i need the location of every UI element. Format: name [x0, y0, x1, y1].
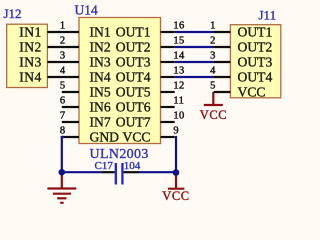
svg-text:15: 15: [173, 36, 184, 47]
svg-text:IN3: IN3: [90, 54, 111, 69]
svg-text:2: 2: [60, 36, 66, 47]
U14 pin 9 stub: [161, 136, 175, 138]
J11 pin 5 stub: [214, 91, 231, 93]
wire J12 pin3 to U14 pin3: [47, 61, 79, 63]
svg-text:OUT2: OUT2: [238, 39, 273, 54]
VCC symbol stem (J11): [212, 92, 214, 105]
wire U14 pin9 down to VCC junction: [175, 136, 177, 173]
svg-text:VCC: VCC: [123, 129, 151, 144]
svg-text:9: 9: [173, 126, 179, 137]
svg-text:8: 8: [60, 126, 66, 137]
wire pin8 elbow: [61, 136, 64, 138]
svg-text:2: 2: [210, 36, 215, 47]
svg-text:IN5: IN5: [90, 84, 111, 99]
J11 pin 4 stub: [214, 76, 231, 78]
ground bar 1: [47, 187, 76, 189]
VCC symbol stem (bottom): [175, 175, 177, 189]
svg-text:IN3: IN3: [19, 54, 42, 69]
svg-text:5: 5: [210, 81, 215, 92]
svg-text:3: 3: [210, 51, 215, 62]
svg-text:1: 1: [210, 21, 215, 32]
U14 pin 11 stub: [161, 106, 175, 108]
wire J12 pin2 to U14 pin2: [47, 46, 79, 48]
svg-text:104: 104: [124, 160, 141, 172]
svg-text:14: 14: [173, 51, 185, 62]
svg-text:OUT4: OUT4: [116, 69, 151, 84]
U14 pin 8 stub: [62, 136, 79, 138]
C17 right lead: [124, 171, 139, 173]
net OUT3 wire: [175, 61, 214, 63]
svg-text:U14: U14: [75, 3, 98, 18]
svg-text:GND: GND: [90, 129, 120, 144]
svg-text:OUT6: OUT6: [116, 99, 151, 114]
junction dot at VCC node: [173, 169, 180, 176]
connector J11 body: [230, 25, 280, 98]
svg-text:5: 5: [60, 81, 66, 92]
U14 pin 5 stub: [62, 91, 79, 93]
U14 pin 7 stub: [62, 121, 79, 123]
U14 pin 6 stub: [62, 106, 79, 108]
svg-text:IN2: IN2: [90, 39, 111, 54]
wire ground junction to C17: [62, 171, 102, 173]
net OUT1 wire: [175, 31, 214, 33]
ground bar 2: [53, 193, 71, 195]
svg-text:7: 7: [60, 111, 66, 122]
svg-text:OUT7: OUT7: [116, 114, 151, 129]
svg-text:16: 16: [173, 21, 184, 32]
svg-text:OUT1: OUT1: [116, 24, 151, 39]
J11 pin 1 stub: [214, 31, 231, 33]
svg-text:OUT4: OUT4: [238, 69, 273, 84]
svg-text:J12: J12: [4, 6, 22, 21]
wire pin8 down to ground: [61, 136, 63, 172]
svg-text:OUT2: OUT2: [116, 39, 151, 54]
wire J12 pin1 to U14 pin1: [47, 31, 79, 33]
svg-text:OUT1: OUT1: [238, 24, 273, 39]
ground stem: [61, 175, 63, 189]
svg-text:4: 4: [210, 66, 216, 77]
VCC symbol bar (bottom): [168, 188, 185, 190]
U14 pin 14 stub: [161, 61, 175, 63]
U14 pin 16 stub: [161, 31, 175, 33]
svg-text:C17: C17: [95, 160, 114, 172]
C17 plate left: [115, 163, 117, 185]
J11 pin 3 stub: [214, 61, 231, 63]
svg-text:J11: J11: [259, 8, 277, 23]
VCC symbol bar (J11): [204, 104, 223, 106]
svg-text:OUT5: OUT5: [116, 84, 151, 99]
C17 left lead: [101, 171, 114, 173]
svg-text:12: 12: [173, 81, 184, 92]
svg-text:4: 4: [60, 66, 66, 77]
svg-text:3: 3: [60, 51, 66, 62]
svg-text:6: 6: [60, 96, 66, 107]
connector J12 body: [7, 24, 48, 87]
svg-text:IN4: IN4: [90, 69, 111, 84]
net OUT4 wire: [175, 76, 214, 78]
U14 pin 15 stub: [161, 46, 175, 48]
svg-text:IN1: IN1: [19, 24, 42, 39]
wire C17 to VCC junction: [139, 171, 176, 173]
J11 pin 2 stub: [214, 46, 231, 48]
svg-text:13: 13: [173, 66, 184, 77]
U14 pin 10 stub: [161, 121, 175, 123]
svg-text:OUT3: OUT3: [116, 54, 151, 69]
svg-text:VCC: VCC: [162, 189, 190, 203]
svg-text:IN1: IN1: [90, 24, 111, 39]
svg-text:1: 1: [60, 21, 66, 32]
C17 plate right: [121, 163, 123, 185]
IC U14 body: [79, 18, 161, 144]
ground bar 3: [57, 197, 66, 199]
U14 pin 13 stub: [161, 76, 175, 78]
svg-text:IN7: IN7: [90, 114, 111, 129]
svg-text:IN2: IN2: [19, 39, 42, 54]
junction dot at ground node: [59, 169, 66, 176]
svg-text:11: 11: [173, 96, 184, 107]
svg-text:IN4: IN4: [19, 69, 42, 84]
U14 pin 12 stub: [161, 91, 175, 93]
svg-text:IN6: IN6: [90, 99, 111, 114]
net OUT2 wire: [175, 46, 214, 48]
wire J12 pin4 to U14 pin4: [47, 76, 79, 78]
svg-text:VCC: VCC: [200, 108, 228, 122]
svg-text:10: 10: [173, 111, 184, 122]
ground bar 4: [60, 202, 63, 204]
svg-text:OUT3: OUT3: [238, 54, 273, 69]
svg-text:VCC: VCC: [238, 84, 266, 99]
